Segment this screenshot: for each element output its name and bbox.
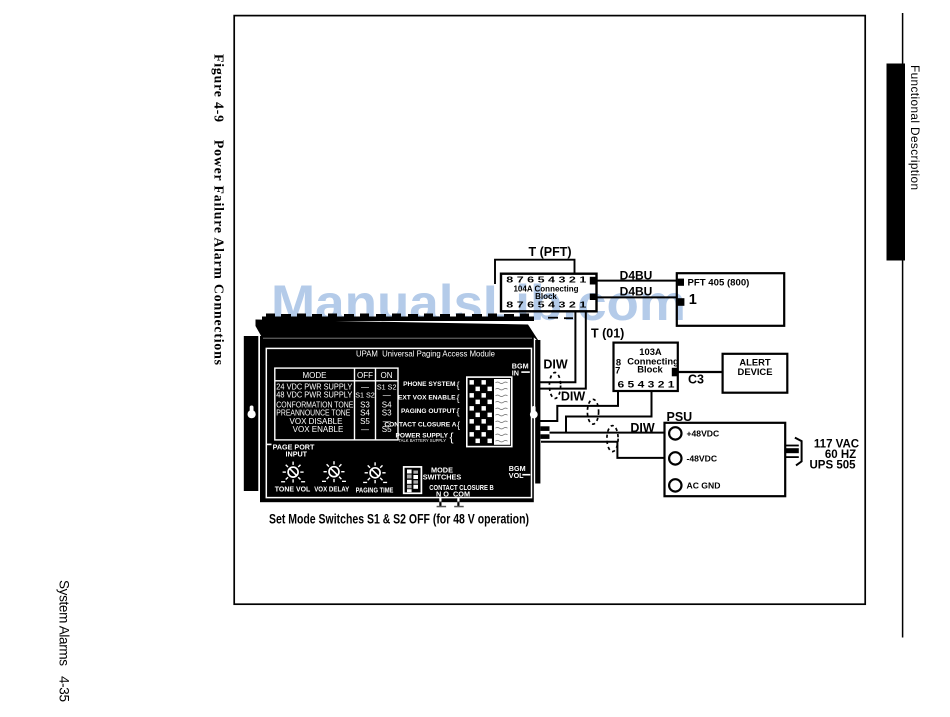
page frame xyxy=(234,16,865,605)
svg-text:T (PFT): T (PFT) xyxy=(528,245,571,259)
label D4BU upper xyxy=(620,268,653,282)
bottom-left label: System Alarms 4-35 xyxy=(57,580,72,702)
wire D4BU lower xyxy=(597,296,679,298)
svg-text:Functional Description: Functional Description xyxy=(908,65,922,190)
wire UPAM to PSU +48VDC xyxy=(550,432,669,434)
box PSU xyxy=(665,423,786,496)
caption Set Mode Switches xyxy=(269,512,529,527)
label DIW 2 xyxy=(561,390,586,404)
svg-text:Block: Block xyxy=(637,364,663,375)
svg-text:{: { xyxy=(450,430,454,444)
AC plug prongs xyxy=(785,445,799,458)
svg-text:ManualsLib.com: ManualsLib.com xyxy=(271,275,686,331)
mode switches DIP block xyxy=(404,467,422,493)
watermark ManualsLib.com xyxy=(271,275,686,331)
svg-text:C3: C3 xyxy=(688,373,704,387)
svg-text:SWITCHES: SWITCHES xyxy=(423,472,462,481)
tick marks under 104A block xyxy=(548,317,573,319)
UPAM chassis front face xyxy=(260,336,534,502)
PSU terminal -48VDC xyxy=(669,452,717,464)
connecting block 104A xyxy=(501,274,597,312)
svg-text:1: 1 xyxy=(689,292,697,308)
label EXT VOX ENABLE xyxy=(398,393,460,403)
svg-text:Figure 4-9 Power Failure Al: Figure 4-9 Power Failure Alarm Connectio… xyxy=(212,54,227,366)
UPAM module chassis top teeth xyxy=(262,314,534,322)
svg-text:DIW: DIW xyxy=(561,390,586,404)
svg-text:VOX ENABLE: VOX ENABLE xyxy=(293,425,344,434)
terminal strip screws xyxy=(470,380,492,443)
label DIW 3 xyxy=(630,421,655,435)
AC plug bracket xyxy=(795,438,802,466)
UPAM title text xyxy=(356,350,495,359)
label C3 xyxy=(688,373,704,387)
label VOX DELAY xyxy=(314,485,349,494)
svg-text:S1 S2: S1 S2 xyxy=(355,391,375,400)
svg-text:ON: ON xyxy=(381,371,393,380)
label BGM IN xyxy=(512,362,530,378)
wire from 104A pin1 to UPAM BGM IN xyxy=(540,312,586,389)
svg-text:{: { xyxy=(457,393,460,403)
label CONTACT CLOSURE A xyxy=(384,420,460,430)
UPAM edge connector stubs xyxy=(541,426,550,439)
svg-text:PAGING TIME: PAGING TIME xyxy=(356,486,394,495)
PSU terminal AC GND xyxy=(669,479,720,491)
svg-text:System Alarms 4-35: System Alarms 4-35 xyxy=(57,580,72,702)
label PAGING TIME xyxy=(356,486,394,495)
svg-text:Set Mode Switches S1 & S2 OFF: Set Mode Switches S1 & S2 OFF (for 48 V … xyxy=(269,512,529,527)
cable marker DIW 3 xyxy=(607,426,618,452)
knob VOX DELAY xyxy=(322,461,346,482)
cable marker DIW 1 xyxy=(549,373,560,399)
svg-text:INPUT: INPUT xyxy=(286,450,308,459)
wire UPAM to PSU -48VDC xyxy=(541,442,669,458)
left margin label: Figure 4-9 Power Failure Alarm Connections xyxy=(212,54,227,366)
svg-text:AC GND: AC GND xyxy=(687,481,721,491)
svg-text:IN: IN xyxy=(512,369,519,378)
wire C3 xyxy=(678,371,723,373)
svg-text:VOL: VOL xyxy=(509,471,524,480)
cable marker DIW 2 xyxy=(587,399,598,424)
T (PFT) cable bracket xyxy=(495,260,575,284)
label CONTACT CLOSURE B xyxy=(429,483,494,492)
knob TONE VOL xyxy=(281,462,305,483)
svg-text:+48VDC: +48VDC xyxy=(687,429,720,439)
label TONE VOL xyxy=(275,485,311,494)
label N O COM xyxy=(436,489,470,498)
label PHONE SYSTEM xyxy=(403,380,459,390)
mode table text xyxy=(276,371,396,434)
label T (01) xyxy=(591,327,624,341)
svg-text:—: — xyxy=(361,425,369,434)
terminal strip wire squiggles xyxy=(496,382,508,442)
svg-text:-48VDC: -48VDC xyxy=(687,454,718,464)
wire from 103A pin6 to UPAM xyxy=(540,391,618,421)
svg-text:PAGING OUTPUT: PAGING OUTPUT xyxy=(401,408,455,415)
terminal square pin on 104A right lower xyxy=(590,294,597,300)
left ear keyhole xyxy=(248,406,256,419)
wire D4BU upper xyxy=(597,280,679,282)
svg-text:UPAM Universal Paging Access: UPAM Universal Paging Access Module xyxy=(356,350,495,359)
label POWER SUPPLY xyxy=(395,430,453,444)
knob PAGING TIME xyxy=(363,462,387,483)
box PFT 405 (800) xyxy=(677,273,784,326)
terminal square pin on 104A right top xyxy=(590,277,597,285)
label PAGE PORT INPUT xyxy=(266,443,315,459)
label BGM VOL xyxy=(509,464,531,480)
contact stubs below chassis xyxy=(437,497,464,508)
svg-text:{: { xyxy=(457,420,460,430)
sidebar black tab xyxy=(887,64,906,261)
right ear keyhole notch xyxy=(530,406,538,418)
UPAM chassis top face xyxy=(256,320,541,344)
svg-text:PSU: PSU xyxy=(667,410,693,424)
UPAM faceplate inner outline xyxy=(266,348,531,497)
svg-text:MODE: MODE xyxy=(303,371,327,380)
svg-text:PFT 405 (800): PFT 405 (800) xyxy=(688,278,750,289)
svg-text:CONTACT CLOSURE A: CONTACT CLOSURE A xyxy=(384,421,456,428)
svg-text:VOX DELAY: VOX DELAY xyxy=(314,485,349,494)
label D4BU lower xyxy=(620,284,653,298)
UPAM right mounting ear xyxy=(535,340,540,484)
svg-text:TONE VOL: TONE VOL xyxy=(275,485,311,494)
connecting block 103A xyxy=(614,343,680,391)
svg-text:EXT VOX ENABLE: EXT VOX ENABLE xyxy=(398,394,456,401)
svg-text:DIW: DIW xyxy=(630,421,655,435)
svg-text:DEVICE: DEVICE xyxy=(738,366,773,377)
mode table xyxy=(275,368,398,440)
box ALERT DEVICE xyxy=(723,354,788,393)
chassis top-front edge highlight xyxy=(263,337,532,339)
svg-text:48 VDC PWR SUPPLY: 48 VDC PWR SUPPLY xyxy=(276,391,353,400)
label PAGING OUTPUT xyxy=(401,407,459,417)
svg-text:7: 7 xyxy=(615,365,620,376)
svg-text:6 5 4 3 2 1: 6 5 4 3 2 1 xyxy=(618,378,675,389)
sidebar rule line xyxy=(902,13,904,638)
wire from 104A pin2 to UPAM BGM IN xyxy=(540,312,575,382)
svg-text:{: { xyxy=(457,407,460,417)
svg-text:—: — xyxy=(383,391,391,400)
svg-text:OFF: OFF xyxy=(357,371,373,380)
svg-text:TALK BATTERY SUPPLY: TALK BATTERY SUPPLY xyxy=(398,438,446,443)
svg-text:PHONE SYSTEM: PHONE SYSTEM xyxy=(403,381,456,388)
PSU terminal +48VDC xyxy=(669,427,719,439)
label DIW 1 xyxy=(543,358,568,372)
svg-text:DIW: DIW xyxy=(543,358,568,372)
terminal strip block xyxy=(467,377,512,447)
sidebar label: Functional Description xyxy=(908,65,922,190)
label 117 VAC 60 HZ UPS 505 xyxy=(809,438,859,471)
svg-text:{: { xyxy=(457,380,460,390)
label MODE SWITCHES xyxy=(423,466,462,482)
UPAM left mounting ear xyxy=(244,336,258,491)
svg-text:UPS 505: UPS 505 xyxy=(809,459,856,471)
wire from 103A pin3 to junction xyxy=(566,391,652,433)
label PSU xyxy=(667,410,693,424)
label T (PFT) xyxy=(528,245,571,259)
terminal square pin on 103A right xyxy=(672,368,678,377)
